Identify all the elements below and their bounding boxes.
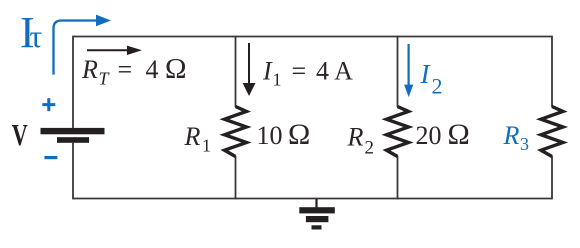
ground: [315, 199, 317, 208]
svg-text:1: 1: [202, 136, 211, 156]
svg-text:3: 3: [520, 134, 529, 154]
wire top rail: [73, 36, 552, 38]
current arrow RT (black, top): [87, 49, 128, 51]
svg-text:V: V: [12, 117, 28, 152]
battery source V: [41, 128, 105, 134]
svg-text:τ: τ: [30, 18, 43, 54]
svg-text:Ω: Ω: [288, 118, 310, 151]
wire left branch (source branch): [72, 36, 74, 200]
wire right branch (R3 branch): [551, 36, 553, 200]
polarity minus: [44, 156, 57, 159]
current arrow I1 (black): [248, 43, 250, 84]
svg-text:T: T: [99, 69, 111, 89]
current arrow I2 (blue): [408, 44, 410, 85]
svg-text:4 A: 4 A: [316, 56, 353, 85]
svg-text:R: R: [184, 122, 201, 151]
resistor R2 zigzag: [387, 107, 409, 157]
wire bottom rail: [73, 198, 552, 200]
svg-text:1: 1: [273, 69, 282, 89]
wire R2 branch: [397, 36, 399, 200]
wire R1 branch: [235, 36, 237, 200]
svg-text:Ω: Ω: [448, 118, 470, 151]
polarity plus: [42, 98, 55, 111]
svg-text:R: R: [503, 121, 520, 150]
resistor R3 zigzag: [541, 107, 563, 157]
svg-text:I: I: [262, 56, 273, 85]
svg-text:R: R: [347, 123, 364, 152]
svg-text:Ω: Ω: [165, 53, 187, 85]
svg-text:4: 4: [146, 55, 159, 84]
svg-text:20: 20: [416, 121, 442, 150]
resistor R1 zigzag: [225, 107, 247, 157]
svg-text:2: 2: [432, 74, 443, 99]
svg-text:2: 2: [365, 138, 375, 159]
current arrow IT (blue, source loop): [54, 21, 98, 75]
svg-text:I: I: [420, 59, 432, 89]
svg-text:10: 10: [257, 121, 283, 150]
svg-text:=: =: [292, 56, 307, 85]
svg-text:=: =: [118, 55, 133, 84]
svg-text:R: R: [81, 55, 98, 84]
